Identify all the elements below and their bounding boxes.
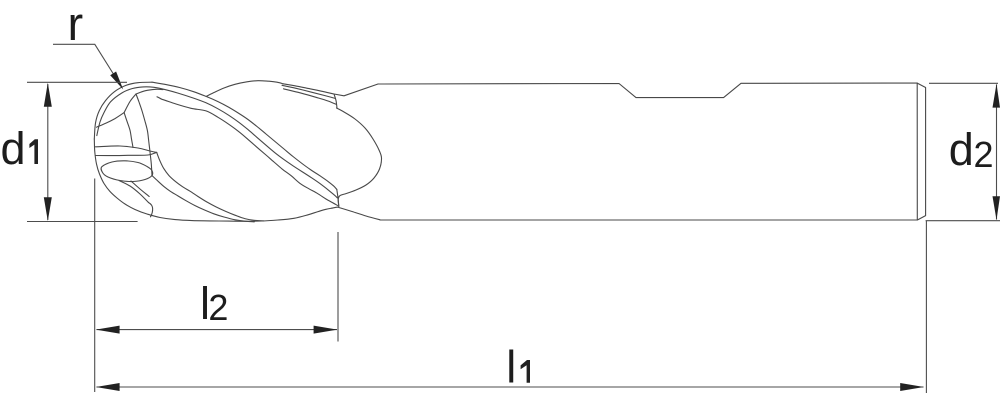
l1 arrow left [96,383,120,391]
heel flap 2 upper edge [119,181,149,203]
gash ellipse [101,161,153,182]
flute 2 land lower edge [282,85,336,98]
d2 dimension line [996,85,998,220]
l1 arrow right [900,383,924,391]
ball silhouette upper [94,82,152,139]
d1 bottom extension line [27,221,138,223]
l1 dimension line [97,386,924,388]
flute 1 edge B [97,87,337,198]
flute 2 land upper edge [283,84,334,94]
lower land edge L2 [152,176,254,222]
flute 1 edge A [152,82,337,189]
d2 arrow down [993,196,1000,220]
d1 dimension line [47,84,49,220]
svg-text:l: l [506,342,516,393]
l1 right extension line [925,221,927,393]
r leader line [53,44,118,80]
flute 2 end tick [334,94,337,108]
flute 1 edge C [157,97,338,206]
heel flap 1 upper edge [96,146,157,152]
heel flap 2 inner edge [131,181,149,197]
heel flap 2 hook [149,203,153,217]
d2 bottom extension line [926,220,1000,222]
l2 arrow left [96,326,120,334]
l1 subscript 1 glyph [521,360,530,383]
l2 right extension line [337,232,339,342]
flute 1 end tick [337,189,339,206]
svg-text:2: 2 [208,287,228,328]
l2 left extension line (shared with l1) [94,179,96,393]
svg-text:r: r [68,0,84,50]
tip gash sweep [136,94,152,176]
tip gash tail [124,113,133,148]
shank body outline [378,83,926,220]
d2 top extension line [929,82,998,84]
lower land edge L1 [157,152,264,221]
d2 arrow up [993,84,1000,108]
flute 2 flank edge [284,89,337,105]
flute end scallop [337,108,382,206]
shank chamfer crease [916,83,918,220]
tip facet arc [136,89,163,94]
l2 dimension line [97,329,338,331]
flute 2 crest arc [206,81,283,97]
svg-text:d: d [1,123,26,174]
heel flap 1 lower edge [96,152,157,155]
l2 arrow right [314,326,338,334]
top transition to shank [334,84,378,96]
d1 arrow down [44,197,52,221]
r leader arrowhead [110,72,123,90]
ball/body bottom silhouette [94,139,337,221]
d1 arrow up [44,83,52,107]
tip gash edge right [124,94,136,113]
d1 top extension line [27,81,127,83]
d1 subscript 1 glyph [29,139,38,164]
tip gash edge left [97,113,125,128]
bottom transition to shank [338,207,380,220]
svg-text:2: 2 [974,134,994,175]
svg-text:d: d [949,124,974,175]
